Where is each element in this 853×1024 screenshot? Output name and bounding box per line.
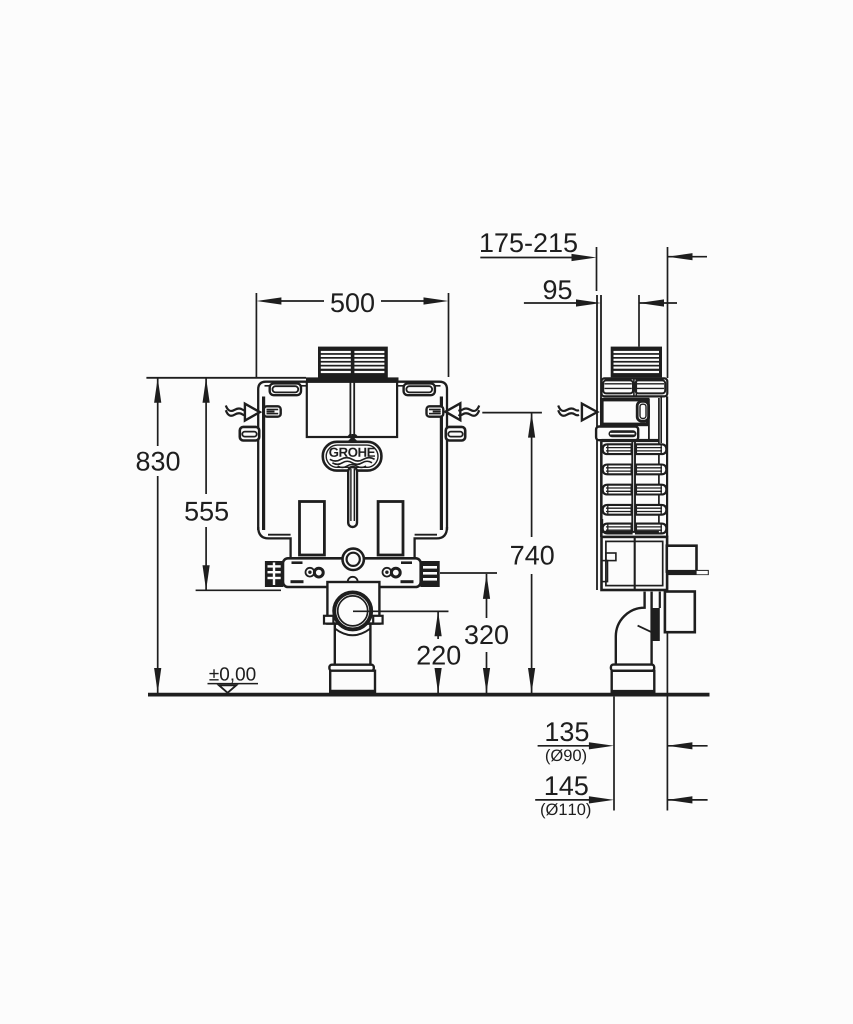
side view: rib row 3 right [636, 485, 666, 495]
front view: left side tab [240, 427, 259, 441]
side view: rib row 1 left [603, 444, 632, 454]
side view: tank top left slot [603, 380, 633, 393]
front view: right keyhole clip [404, 383, 435, 395]
front view: housing centre divider [349, 382, 351, 437]
dimension 555 (rail height) [185, 378, 281, 591]
extension line wall face (x=596.5) [596, 247, 598, 291]
side view: flush housing [602, 400, 648, 425]
front view: outlet centre leader [353, 610, 448, 612]
front view: outlet top arc [348, 577, 358, 582]
frame front face line (x=601) [600, 295, 602, 537]
side view: channel lines right of housing [648, 399, 650, 440]
front view: flush housing box [307, 382, 397, 437]
front view: outlet down pipe [335, 624, 371, 665]
front view: inspection shaft (slotted box) [318, 347, 388, 378]
side view: tank top box [602, 378, 668, 396]
side view: tank top divider [633, 378, 635, 396]
side view: tank top right slot [635, 380, 665, 393]
front view: outlet housing [324, 582, 383, 624]
side view: rib row 2 left [603, 465, 632, 475]
extension line flush pipe centre (x=639) [638, 295, 640, 347]
extension line outlet pipe edge below ground (x=614) [613, 697, 615, 811]
dimension 500 (cistern width) [256, 293, 448, 312]
extension line left (x=256.4) [255, 293, 257, 377]
side view: rib row 1 right [636, 444, 666, 454]
reference line outlet centre (y=611.3) [353, 610, 448, 612]
side view: tank bottom line [601, 531, 659, 533]
front view: rod/box connector [349, 434, 357, 443]
side view: rib row 3 left [603, 485, 632, 495]
datum level ±0,00 [208, 667, 259, 693]
wall surface line (x=597) [596, 295, 598, 590]
side view: outlet elbow [616, 592, 660, 665]
front view: flush valve ring [343, 549, 364, 570]
side view: rib row 5 left [603, 524, 632, 534]
reference line rail bottom (y=573) [440, 572, 497, 574]
front view: pipe collar [329, 665, 373, 671]
front view: pipe socket [330, 671, 375, 694]
dimension 320 (rail bottom height) [465, 574, 508, 693]
front view: left keyhole clip [270, 383, 301, 395]
dimension 145 (Ø110) [535, 776, 707, 818]
front view: rail slots [291, 561, 414, 583]
side view: wall clip bar [596, 427, 638, 441]
side view: pipe collar [611, 665, 654, 671]
extension line frame rear below ground (x=667.4) [666, 591, 668, 811]
ground line [148, 693, 710, 697]
side view: rib row 5 right [636, 524, 666, 534]
side view: lower wall arm [665, 592, 695, 633]
side view: wall arrow (squiggle) [558, 404, 597, 421]
extension line right (x=448.5) [448, 293, 450, 377]
front view: right side tab [446, 427, 465, 441]
side view: wall anchor plate [667, 570, 709, 575]
top reference line (tank top level) [146, 377, 306, 379]
front view: mounting rail [283, 558, 421, 587]
front view: right support leg [378, 502, 403, 556]
front view: rail screws left pair [306, 568, 324, 577]
side view: flush pipe pill [637, 401, 648, 421]
front view: left anchor block [265, 561, 283, 587]
side view: tank walls [601, 396, 667, 537]
front view: GROHE logo [323, 442, 382, 471]
side view: inspection shaft (slotted box) [611, 347, 662, 378]
dimension 135 (Ø90) [538, 722, 708, 764]
dimension 95 (wall to flush pipe centre) [524, 280, 677, 306]
front view: left wall clip [264, 406, 281, 416]
extension line frame rear (x=667.5) [667, 247, 669, 378]
front view: right anchor block [420, 561, 439, 587]
front view: outlet ring [334, 592, 371, 629]
front view: left wall arrow (squiggle) [226, 404, 260, 421]
side view: rib row 4 left [603, 505, 632, 515]
front view: right wall clip [427, 406, 444, 416]
front view: rail screws right pair [383, 568, 401, 577]
side view: pipe socket [612, 671, 655, 694]
side view: bottom corner detail [602, 519, 609, 532]
dimension 175-215 (frame depth range) [480, 233, 707, 261]
dimension 830 (overall height) [137, 378, 180, 693]
front view: right wall arrow (squiggle) [445, 403, 479, 420]
front view: float rod [348, 467, 357, 527]
side view: rib row 2 right [636, 465, 666, 475]
side view: upper wall arm [667, 546, 697, 572]
front view: left support leg [300, 502, 325, 556]
dimension 220 (outlet centre height) [418, 611, 461, 693]
dimension 740 (tank top height) [511, 413, 554, 693]
side view: frame box [602, 537, 668, 590]
front view: tank outline [258, 382, 447, 557]
reference line top of side tank (y=412.6) [482, 412, 542, 414]
side view: tank bottom bar [602, 439, 659, 442]
front view: top flange bar [306, 377, 399, 382]
side view: rib row 4 right [636, 505, 666, 515]
